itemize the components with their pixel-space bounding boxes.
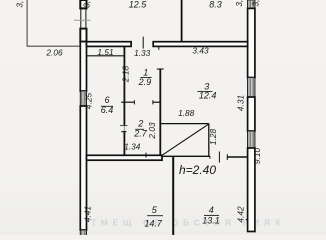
hatched window W4 at top of right wall — [248, 0, 255, 8]
window W1 mid tick — [74, 19, 91, 21]
main horizontal wall right part — [153, 42, 247, 47]
svg-text:4.25: 4.25 — [83, 93, 93, 110]
right exterior wall upper segment — [248, 8, 255, 77]
room 6 underline — [101, 105, 113, 107]
wall room1/room2 left segment — [121, 101, 134, 103]
closet box bottom line — [87, 55, 125, 57]
room 2 underline — [135, 128, 144, 130]
svg-text:4: 4 — [209, 205, 214, 215]
svg-text:12.5: 12.5 — [129, 0, 148, 9]
door jamb tick left — [133, 100, 135, 104]
dimension tick in main wall door gap — [142, 37, 144, 49]
jamb tick at boundary line start — [226, 154, 228, 160]
svg-text:2.18: 2.18 — [120, 66, 130, 84]
small tick on right wall lower face — [246, 219, 248, 221]
svg-text:1.88: 1.88 — [178, 108, 195, 118]
svg-text:6: 6 — [104, 95, 109, 105]
door jamb tick upper — [120, 125, 128, 127]
svg-text:ТМЕЩ ОБ ОБСТОЯ НИЯХ: ТМЕЩ ОБ ОБСТОЯ НИЯХ — [91, 218, 285, 228]
svg-text:2.03: 2.03 — [147, 122, 157, 140]
window W1 in left wall — [81, 8, 86, 28]
main horizontal wall left part — [87, 42, 132, 47]
svg-text:3,: 3, — [81, 1, 91, 8]
stair box right edge — [208, 124, 210, 157]
svg-text:6.4: 6.4 — [101, 105, 114, 115]
T tick at partition top — [157, 68, 164, 70]
svg-text:h=2.40: h=2.40 — [179, 163, 216, 177]
left wall long lower segment — [80, 106, 86, 230]
tick below main wall — [158, 47, 160, 50]
wall room1/room2 right segment — [153, 101, 160, 103]
svg-text:3,: 3, — [14, 1, 24, 8]
left wall segment above hatch — [80, 42, 86, 91]
hatched window W5 in right wall — [248, 78, 255, 98]
partition room 6 / rooms 1-2 upper part — [123, 46, 125, 125]
stair box top edge — [161, 123, 209, 125]
thin door sill in that partition — [123, 125, 125, 132]
svg-text:1.34: 1.34 — [124, 141, 141, 151]
svg-text:12.4: 12.4 — [199, 91, 217, 101]
hatched window W3 at bottom of left wall — [80, 230, 86, 236]
room 1 underline — [140, 76, 151, 78]
hatched window W2 in left wall — [80, 91, 86, 106]
svg-text:2.06: 2.06 — [45, 48, 63, 58]
right exterior wall middle segment — [248, 97, 255, 131]
svg-text:1.28: 1.28 — [208, 129, 218, 146]
svg-text:2: 2 — [137, 119, 143, 129]
hatched window W6 in right wall — [248, 131, 255, 148]
stair box diagonal — [162, 124, 209, 155]
boundary outline line top-left — [27, 0, 80, 46]
door jamb tick lower — [121, 131, 126, 133]
partition rooms 1-2 / room 3 — [159, 69, 161, 156]
svg-text:9.10: 9.10 — [252, 148, 262, 165]
svg-text:4.31: 4.31 — [236, 95, 246, 111]
stair box bottom edge — [161, 155, 210, 157]
left wall block under window W1 — [80, 29, 86, 42]
bottom-left horizontal wall — [87, 155, 163, 160]
svg-text:3.43: 3.43 — [192, 45, 209, 55]
dimension tick in opening — [218, 152, 220, 163]
stair box corner tick — [209, 156, 211, 158]
room 3 underline — [197, 90, 212, 92]
door jamb tick right — [152, 100, 154, 104]
partition between rooms 12.5 and 8.3 — [181, 0, 183, 42]
tick on bottom-left wall — [145, 153, 147, 158]
svg-text:13.1: 13.1 — [202, 216, 220, 226]
svg-text:1.51: 1.51 — [97, 47, 113, 57]
svg-text:3,: 3, — [234, 0, 244, 7]
svg-text:1.33: 1.33 — [134, 48, 151, 58]
room 4 underline — [204, 214, 219, 216]
svg-text:4.41: 4.41 — [82, 206, 92, 222]
partition rooms 5/4 — [172, 157, 174, 235]
svg-text:3,: 3, — [251, 0, 261, 6]
partition room 6 / room 2 lower part — [123, 132, 125, 156]
svg-text:4.42: 4.42 — [235, 206, 245, 223]
svg-text:2.9: 2.9 — [138, 77, 152, 87]
svg-text:2.7: 2.7 — [133, 129, 148, 139]
svg-text:14.7: 14.7 — [144, 218, 163, 228]
room 5 underline — [147, 215, 163, 217]
left exterior wall top block — [80, 0, 86, 8]
room3/room4 boundary line right of stairs — [227, 156, 247, 158]
svg-text:8.3: 8.3 — [209, 0, 222, 10]
right exterior wall lower segment — [248, 148, 255, 232]
